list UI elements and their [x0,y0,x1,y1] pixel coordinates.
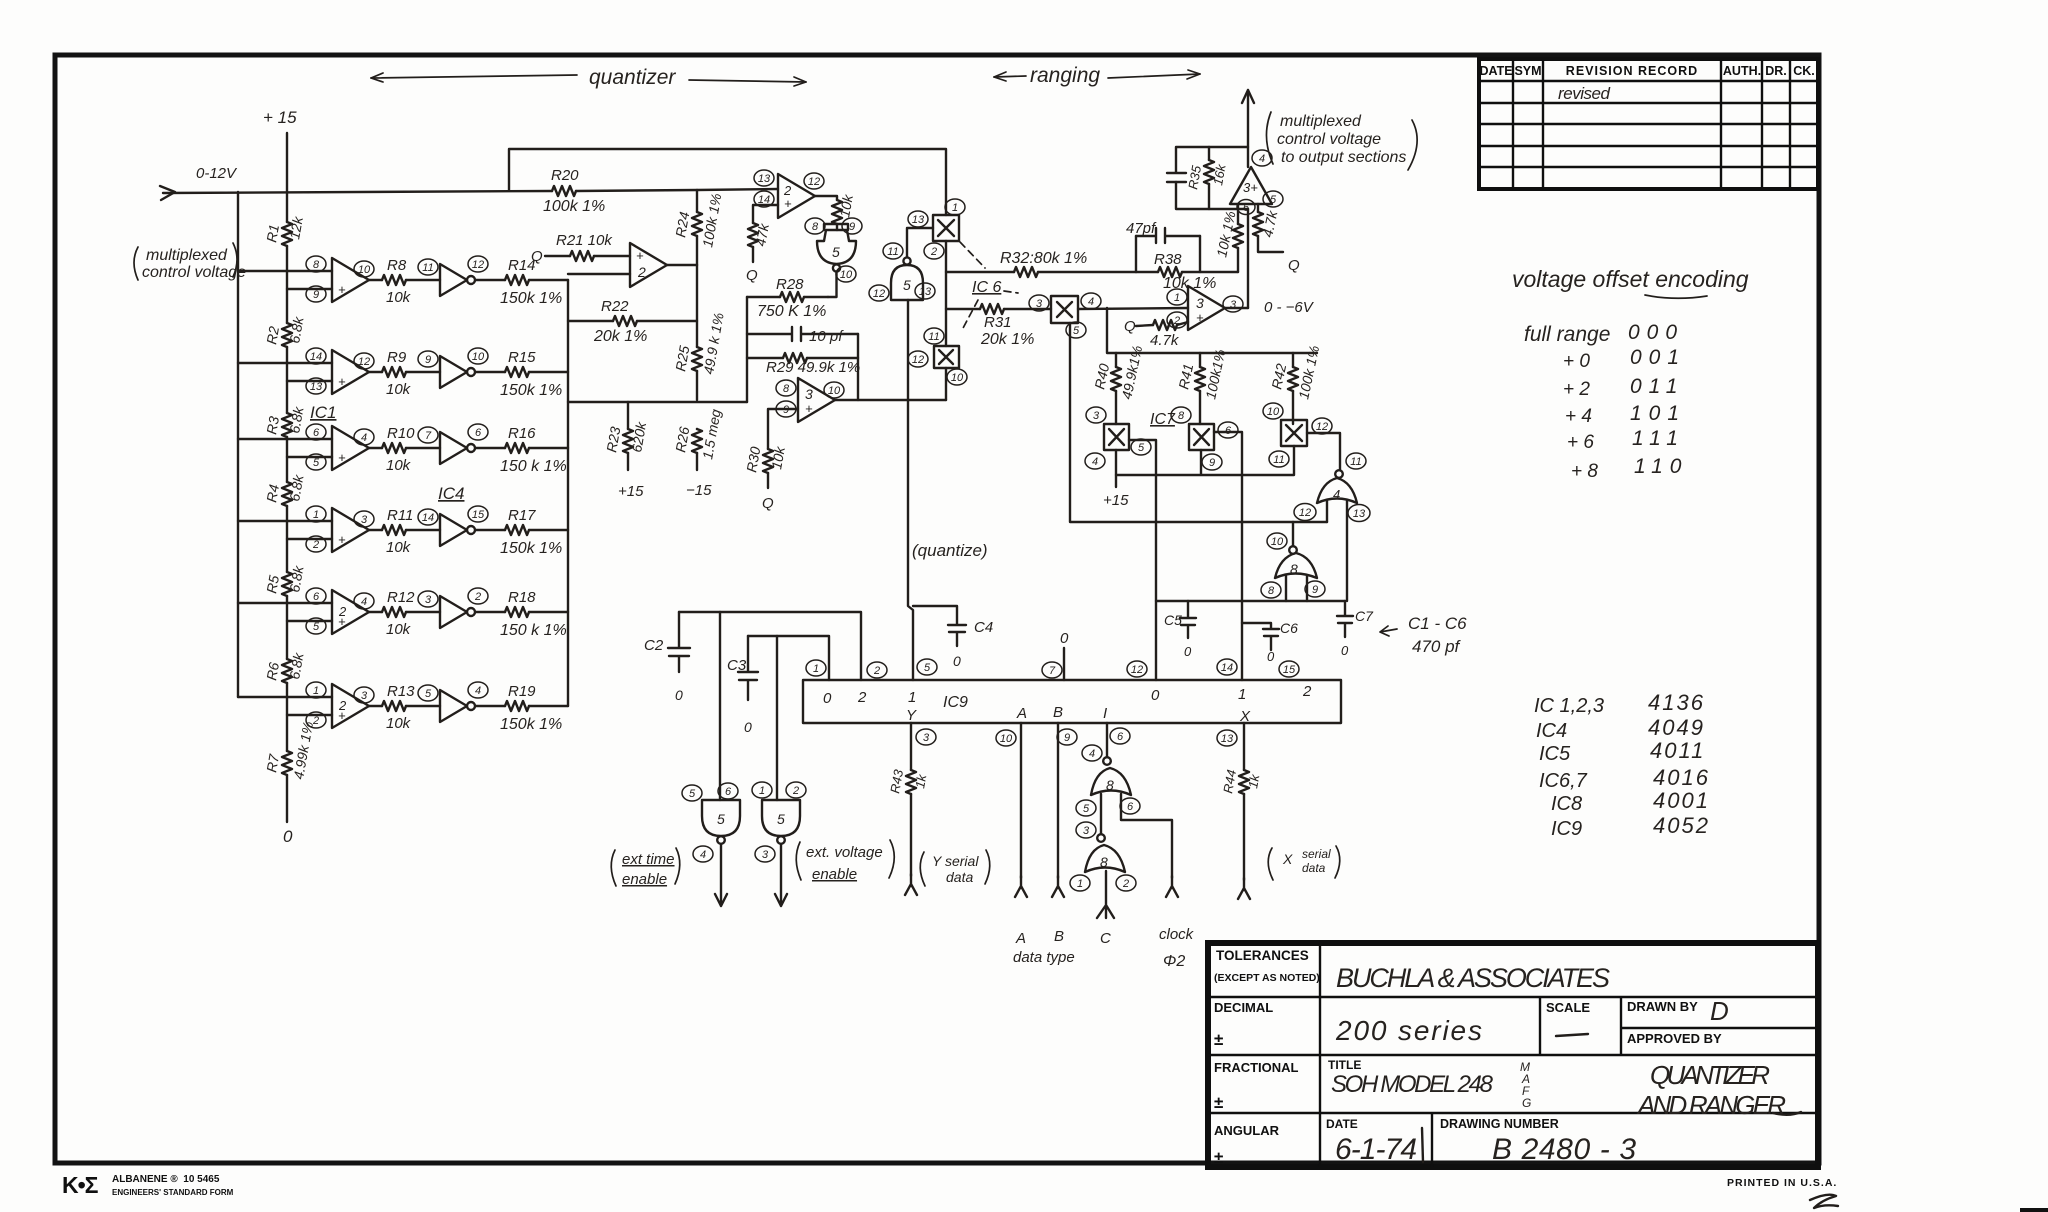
svg-text:11: 11 [928,331,939,343]
svg-text:−15: −15 [686,482,712,499]
svg-text:10: 10 [828,385,841,397]
svg-text:IC1: IC1 [310,403,336,422]
NOR gate IC8 8b [1070,822,1136,891]
quantizer section label [371,64,1200,89]
svg-text:control voltage: control voltage [142,264,246,281]
resistor R38 10k 1% [1136,236,1200,272]
capacitor C7 [1337,601,1374,658]
wire ch6 inverting input from bus [238,696,332,698]
svg-text:1: 1 [313,509,319,521]
svg-text:Y serial: Y serial [932,853,979,869]
pin 1 IC9 top [806,660,826,676]
svg-text:IC4: IC4 [438,484,464,503]
transmission gate IC7 X box A [1085,407,1151,469]
svg-text:10 pf: 10 pf [809,328,844,345]
wire op-amp3 output [835,399,946,401]
svg-text:SCALE: SCALE [1546,1000,1590,1015]
svg-text:001: 001 [1630,346,1686,369]
pin 5 IC9 top [917,659,937,675]
svg-text:G: G [1522,1096,1531,1110]
op-amp IC1 section 2 [630,243,667,287]
resistor R15 150k 1% [500,349,562,399]
svg-text:4052: 4052 [1653,813,1710,838]
svg-text:9: 9 [1064,732,1070,744]
svg-text:+15: +15 [1103,492,1129,509]
svg-text:3: 3 [1036,298,1043,310]
wire ch4 to summing bus [529,529,568,531]
svg-text:4.7k: 4.7k [1150,332,1180,349]
svg-text:+ 2: + 2 [1563,379,1590,400]
wire ch4 non-inverting input from chain [287,538,332,540]
op-amp IC2 section 2 top [754,170,824,218]
capacitor C2 [644,612,690,703]
svg-text:IC9: IC9 [1551,818,1582,840]
NAND gate IC5a [805,218,862,282]
inverter ch3 [418,424,488,464]
wire ch3 non-inverting input from chain [287,456,332,458]
svg-text:2: 2 [792,785,799,797]
svg-text:3: 3 [1230,299,1237,311]
svg-text:PRINTED IN U.S.A.: PRINTED IN U.S.A. [1727,1177,1837,1189]
capacitor 10 pf [747,327,858,341]
wire ch1 inverting input from bus [238,270,332,272]
svg-text:150k 1%: 150k 1% [500,540,562,557]
svg-text:IC4: IC4 [1536,720,1567,742]
svg-text:2: 2 [338,698,347,713]
svg-text:8: 8 [1290,561,1298,577]
svg-text:14: 14 [422,512,434,524]
wire enable line A [679,612,861,680]
wire ch2 non-inverting input from chain [287,380,332,382]
resistor R20 100k 1% [543,167,605,215]
svg-text:4: 4 [1333,487,1340,502]
svg-text:10: 10 [472,351,485,363]
NAND gate IC5c ext time [682,783,740,862]
svg-text:+: + [784,196,792,211]
inverter ch6 [418,682,488,722]
resistor R17 150k 1% [500,507,562,557]
svg-text:000: 000 [1628,321,1684,344]
resistor R43 1k [887,768,929,795]
svg-text:2: 2 [930,246,937,258]
inverter ch5 [418,588,488,628]
svg-text:3: 3 [361,690,368,702]
svg-text:4001: 4001 [1653,788,1710,813]
svg-text:R6: R6 [263,661,282,682]
wire ext time arrow [715,844,727,906]
svg-text:12: 12 [358,356,370,368]
wire +15 resistor chain vertical [286,133,288,822]
svg-text:0: 0 [953,653,961,669]
resistor R6 6.8k [263,651,307,683]
pin 13 IC9 bottom [1217,730,1237,746]
wire 8a pin6 branch [1121,794,1172,878]
wire feedback right edge [857,334,859,400]
svg-text:TOLERANCES: TOLERANCES [1216,948,1309,963]
op-amp IC2 section 3 ranging [1167,286,1243,330]
svg-text:150 k 1%: 150 k 1% [500,458,567,475]
svg-text:8: 8 [1106,777,1114,793]
wire ch6 to inverter [406,705,440,707]
svg-text:voltage offset encoding: voltage offset encoding [1512,266,1749,292]
svg-text:20k 1%: 20k 1% [593,328,647,345]
op-amp IC1 section 3 [776,378,844,422]
svg-text:12: 12 [912,354,924,366]
svg-text:R17: R17 [508,507,536,524]
svg-text:DRAWING NUMBER: DRAWING NUMBER [1440,1117,1559,1131]
svg-text:data type: data type [1013,949,1075,966]
svg-text:R10: R10 [387,425,415,442]
resistor 10k 1% vertical [1237,204,1239,272]
svg-text:15: 15 [472,509,485,521]
svg-text:C2: C2 [644,637,664,654]
svg-text:R38: R38 [1154,251,1182,268]
wire ch6 non-inverting input from chain [287,714,332,716]
svg-text:8: 8 [1178,410,1185,422]
svg-text:K•Σ: K•Σ [62,1172,99,1198]
svg-text:10: 10 [951,372,964,384]
svg-text:AUTH.: AUTH. [1723,64,1761,78]
svg-text:2: 2 [474,591,481,603]
pin 14 IC9 top [1217,659,1237,675]
wire feedback box top [509,149,946,215]
svg-text:+15: +15 [618,483,644,500]
wire 8a pin5 to 8b output [1100,794,1102,834]
svg-text:13: 13 [310,381,323,393]
svg-text:0-12V: 0-12V [196,165,238,182]
svg-text:C3: C3 [727,657,747,674]
svg-text:10k: 10k [386,457,412,474]
svg-text:Y: Y [906,707,917,724]
svg-text:+: + [338,450,346,465]
svg-text:Q: Q [1288,257,1300,274]
svg-text:12: 12 [873,288,885,300]
wire ch4 op-amp output [369,529,382,531]
svg-text:5: 5 [689,788,696,800]
svg-text:10: 10 [1267,406,1280,418]
svg-text:7: 7 [425,430,432,442]
NOR gate IC8 8a [1076,745,1140,816]
svg-text:10k: 10k [386,621,412,638]
NOR gate IC8 "4" [1294,453,1370,522]
op-amp ch6 [306,682,374,728]
resistor R28 750 K 1% [747,296,828,298]
resistor R24 100k 1% [696,190,698,265]
svg-text:2: 2 [873,665,880,677]
svg-text:2: 2 [312,539,319,551]
wire multiplexed CV bus [237,192,239,697]
svg-text:data: data [946,869,973,885]
svg-text:0: 0 [1151,687,1160,704]
capacitor C5 [1164,601,1196,659]
svg-text:6: 6 [313,591,320,603]
svg-text:4: 4 [1259,153,1265,165]
svg-text:5: 5 [313,621,320,633]
svg-text:1: 1 [1238,686,1246,703]
svg-text:6-1-74: 6-1-74 [1335,1133,1417,1166]
resistor R8 10k [382,257,412,306]
wire clock antenna [1097,871,1114,918]
svg-text:D: D [1710,996,1729,1026]
resistor R9 10k [382,349,412,398]
resistor R41 100k1% [1199,353,1201,424]
svg-text:DR.: DR. [1765,64,1787,78]
svg-text:B: B [1054,928,1064,945]
wire NAND5b output to X box control [907,228,933,257]
svg-text:9: 9 [849,221,855,233]
capacitor C3 [727,636,758,735]
wire R30 to pin 9 [768,409,798,488]
resistor R26 1.5 meg [696,429,698,470]
svg-text:0: 0 [1184,644,1192,659]
svg-text:5: 5 [717,811,725,827]
wire ch6 inverter out [476,705,505,707]
wire quantize serial line down to IC9 [908,300,913,680]
svg-text:+: + [805,401,813,416]
svg-text:4: 4 [700,849,706,861]
svg-text:R4: R4 [263,483,282,504]
wire ext time gate input [719,612,721,800]
svg-text:4: 4 [1092,456,1098,468]
wire ch3 to inverter [406,447,440,449]
svg-text:+ 8: + 8 [1571,461,1598,482]
op-amp IC3 section 3 output [1230,150,1283,215]
wire ch2 op-amp output [369,371,382,373]
svg-text:111: 111 [1632,427,1685,450]
wire X row bottom rail [1116,446,1294,475]
wire NOR4 inputs [1327,501,1347,601]
wire capacitor line [1156,600,1345,602]
wire X serial with R44 [1243,723,1245,880]
svg-text:BUCHLA & ASSOCIATES: BUCHLA & ASSOCIATES [1336,963,1610,993]
wire op-amp out to 10k [815,196,837,200]
wire pin14 input + 47k to Q [753,205,778,262]
svg-text:5: 5 [1073,325,1080,337]
svg-text:4: 4 [475,685,481,697]
svg-text:9: 9 [425,354,431,366]
svg-text:14: 14 [310,351,322,363]
svg-text:R5: R5 [263,574,282,595]
svg-text:ext time: ext time [622,851,675,868]
resistor R10 10k [382,425,415,474]
wire X7A output down to IC9 pin12 [1129,440,1156,680]
svg-text:0: 0 [1267,649,1275,664]
resistor R3 6.8k [263,405,307,437]
svg-text:3: 3 [1196,295,1204,311]
svg-text:multiplexed: multiplexed [146,247,228,264]
svg-text:SYM: SYM [1514,64,1541,78]
svg-text:IC5: IC5 [1539,743,1571,765]
svg-text:47pf: 47pf [1126,220,1157,237]
svg-text:7: 7 [1049,665,1056,677]
svg-text:101: 101 [1630,402,1686,425]
wire ch1 op-amp output [369,279,382,281]
svg-text:10: 10 [1000,733,1013,745]
svg-text:data: data [1302,861,1326,875]
wire ch5 to inverter [406,611,440,613]
svg-text:11: 11 [1273,454,1284,466]
resistor R1 12k [263,215,306,246]
svg-text:R13: R13 [387,683,415,700]
svg-text:12: 12 [1131,664,1143,676]
svg-text:2: 2 [312,715,319,727]
op-amp ch1 [306,256,374,302]
svg-text:R32:80k 1%: R32:80k 1% [1000,250,1087,267]
op-amp ch2 [306,348,374,394]
resistor R7 4.99k 1% [263,720,316,780]
svg-text:Q: Q [762,495,774,512]
svg-text:enable: enable [812,866,857,883]
svg-text:A: A [1015,930,1026,947]
svg-text:3: 3 [762,849,769,861]
svg-text:R29 49.9k 1%: R29 49.9k 1% [766,359,860,376]
svg-text:0 - −6V: 0 - −6V [1264,299,1315,316]
wire ch4 to inverter [406,529,440,531]
wire ch5 non-inverting input from chain [287,620,332,622]
resistor R42 100k 1% [1292,353,1294,424]
svg-text:serial: serial [1302,847,1331,861]
wire ch5 to summing bus [529,611,568,613]
svg-text:6: 6 [1127,801,1134,813]
resistor R25 49.9k 1% [672,311,727,375]
capacitor C4 [913,606,993,669]
svg-text:10k: 10k [386,715,412,732]
svg-text:12: 12 [1299,507,1311,519]
svg-text:13: 13 [1221,733,1234,745]
capacitor C6 [1242,620,1298,664]
svg-text:3: 3 [425,594,432,606]
inverter ch2 [418,348,488,388]
svg-text:Q: Q [531,248,543,265]
wire ch2 inverter out [476,371,505,373]
transmission gate IC6 X box 3 [1029,293,1101,338]
wire ch1 non-inverting input from chain [287,288,332,290]
svg-text:±: ± [1214,1030,1223,1049]
svg-text:100k 1%: 100k 1% [543,198,605,215]
svg-text:3+: 3+ [1243,180,1258,195]
svg-text:revised: revised [1558,84,1611,103]
svg-text:11: 11 [887,246,898,258]
svg-text:1: 1 [1077,878,1083,890]
svg-text:+: + [636,248,644,263]
pin 6 IC9 bottom [1110,728,1130,744]
svg-text:4: 4 [361,432,367,444]
svg-text:+: + [338,532,346,547]
svg-text:14: 14 [1221,662,1233,674]
svg-text:2: 2 [857,689,867,706]
resistor 10k vertical [832,193,856,224]
wire X1 down chain [945,241,947,400]
svg-text:(quantize): (quantize) [912,541,988,560]
svg-text:Φ2: Φ2 [1163,953,1185,970]
svg-text:0: 0 [1341,643,1349,658]
wire control line from IC6 X3 pin 5 [1070,323,1327,522]
svg-text:4: 4 [1088,296,1094,308]
svg-text:±: ± [1214,1093,1223,1112]
op-amp ch4 [306,506,374,552]
inverter ch4 [418,506,488,546]
svg-text:ANGULAR: ANGULAR [1214,1123,1280,1138]
svg-text:IC9: IC9 [943,694,968,711]
wire NOR8 output up to control line [1292,522,1294,546]
revision record table [1479,59,1818,189]
svg-text:R21 10k: R21 10k [556,232,613,249]
svg-text:+ 0: + 0 [1563,351,1590,372]
svg-text:+: + [338,282,346,297]
svg-text:ALBANENE ® 10 5465: ALBANENE ® 10 5465 [112,1174,220,1185]
svg-text:C7: C7 [1355,608,1374,624]
svg-text:12: 12 [1316,421,1328,433]
svg-text:2: 2 [637,264,646,280]
svg-text:3: 3 [361,514,368,526]
wire ch2 to summing bus [529,371,568,373]
svg-text:3: 3 [805,386,813,402]
wire NAND5a inputs [824,224,848,230]
resistor R23 620k [627,402,629,470]
svg-text:10k 1%: 10k 1% [1163,275,1216,292]
wire ch6 op-amp output [369,705,382,707]
op-amp ch3 [306,424,374,470]
wire ch1 to summing bus [529,279,568,281]
resistor R5 6.8k [263,564,307,596]
svg-text:4016: 4016 [1653,765,1710,790]
svg-text:SOH MODEL 248: SOH MODEL 248 [1331,1071,1494,1098]
svg-text:1: 1 [813,663,819,675]
svg-text:13: 13 [919,286,932,298]
svg-text:IC 6: IC 6 [972,279,1001,296]
resistor R30 10k [743,445,788,474]
pin 10 IC9 bottom [996,730,1016,746]
svg-text:C: C [1100,930,1111,947]
svg-text:B 2480 - 3: B 2480 - 3 [1492,1133,1636,1166]
svg-text:5: 5 [313,457,320,469]
wire ch2 inverting input from bus [238,362,332,364]
svg-text:9: 9 [313,289,319,301]
svg-text:DATE: DATE [1479,64,1512,78]
NAND gate IC5b [869,243,935,301]
wire ch3 op-amp output [369,447,382,449]
resistor R22 20k 1% [568,320,697,322]
resistor R19 150k 1% [500,683,562,733]
svg-text:R12: R12 [387,589,415,606]
svg-text:1: 1 [1174,292,1180,304]
svg-text:R15: R15 [508,349,536,366]
pin 9 IC9 bottom [1057,729,1077,745]
svg-text:AND RANGER: AND RANGER [1636,1090,1786,1120]
svg-text:R2: R2 [263,325,282,346]
svg-text:750 K 1%: 750 K 1% [757,303,826,320]
svg-text:4: 4 [1089,748,1095,760]
wire ch5 inverter out [476,611,505,613]
resistor R12 10k [382,589,415,638]
svg-text:clock: clock [1159,926,1195,943]
corner mark bottom right [2020,1208,2048,1212]
wire 0-12V input line [163,191,552,193]
wire Y serial with R43 [910,723,912,876]
pin 2 IC9 top [867,662,887,678]
svg-text:12: 12 [808,176,820,188]
wire NOR8 inputs down [1286,576,1307,601]
svg-text:4136: 4136 [1648,690,1705,715]
pin 12 IC9 top [1127,661,1147,677]
svg-text:10: 10 [1271,536,1284,548]
wire ch3 inverter out [476,447,505,449]
svg-text:+: + [1196,310,1204,325]
svg-text:5: 5 [425,688,432,700]
svg-text:0: 0 [283,827,293,846]
svg-text:0: 0 [744,719,752,735]
svg-text:to output sections: to output sections [1281,149,1406,166]
